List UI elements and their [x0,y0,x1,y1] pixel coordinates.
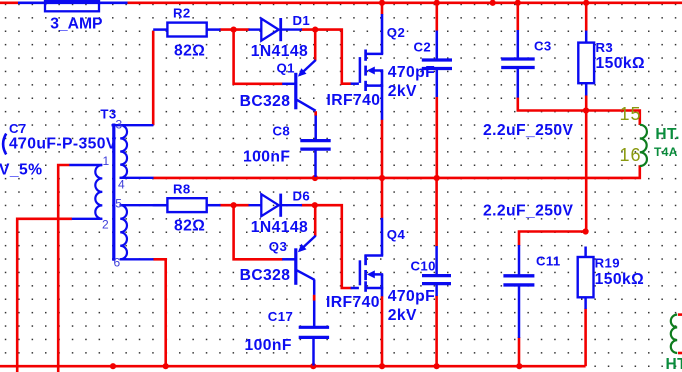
svg-text:IRF740: IRF740 [326,294,380,311]
wire top bus left [0,1,18,4]
wire C2 top [435,3,438,31]
label 82ohm upper [174,42,205,59]
wire R3 bottom / node to R19 node [585,95,588,232]
resistor R2 left stub [153,28,167,31]
resistor R8 left lead [153,204,167,207]
svg-text:R19: R19 [595,255,620,270]
svg-text:C7: C7 [9,121,27,136]
wire Q1 emitter drop [314,30,317,61]
label Q2 [387,25,405,40]
transistor Q2 drain lead [381,14,384,54]
svg-text:IRF740: IRF740 [327,92,381,109]
wire R8 right to D6 [220,204,250,207]
svg-text:2.2uF_250V: 2.2uF_250V [483,122,573,139]
wire T3 pin6 to bottom bus [153,259,165,366]
svg-text:470uF-P-350V: 470uF-P-350V [9,135,117,152]
svg-text:HT: HT [666,356,682,372]
label C17 [268,309,293,324]
wire Q1 base [234,30,283,84]
transistor Q3 collector [297,270,315,280]
svg-text:470pF: 470pF [388,288,435,305]
label Q1 [277,60,295,75]
svg-text:100nF: 100nF [245,337,292,354]
junction D1 anode node [231,27,237,33]
junction bottom bus C17 [310,363,316,369]
label 2kV upper [388,83,417,100]
junction bottom bus C10 [434,363,440,369]
wire C11 bottom [518,337,521,366]
resistor R19 bottom stub [584,297,587,309]
diode D1 cathode lead [281,28,302,30]
transformer HT winding bottom right [671,315,677,353]
junction top bus C2 [434,0,440,6]
svg-text:C3: C3 [534,39,552,54]
label C7 [9,121,27,136]
svg-text:3_AMP: 3_AMP [50,15,102,32]
svg-text:3: 3 [116,118,123,132]
label 1N4148 lower [251,219,308,236]
capacitor C11 bottom lead [518,285,521,338]
label Q3 [269,239,287,254]
label D6 [293,188,311,203]
capacitor C17 bottom lead [312,337,315,365]
label 470uF-P-350V [9,135,117,152]
label R8 [173,181,191,196]
wire Q1 collector joint red [314,112,317,115]
diode D6 [261,194,280,217]
transformer T3 pin3 lead [112,124,154,126]
pin 4 [118,178,125,192]
label IRF740 lower [326,294,380,311]
capacitor C3 top lead [517,30,520,59]
junction D1 cathode node [312,27,318,33]
capacitor C2 bottom lead [436,69,439,98]
svg-text:Q2: Q2 [387,25,405,40]
capacitor C2 top lead [436,31,439,61]
svg-text:V_5%: V_5% [0,162,42,179]
wire mid bus [153,165,640,178]
pin 3 [116,118,123,132]
capacitor C11 top lead [518,245,521,276]
wire Q2 source to mid bus [381,120,384,179]
capacitor C3 plates [501,59,535,68]
junction mid bus Q2-Q4 [379,175,385,181]
pin 1 [103,154,110,168]
resistor R3 bottom stub [585,83,588,95]
transformer T3 pin5 lead [120,204,168,206]
wire node to T4A pin15 [586,111,640,126]
capacitor C10 bottom lead [435,284,438,296]
svg-text:C2: C2 [414,40,432,55]
transistor Q2 MOSFET [351,50,384,120]
svg-text:2: 2 [102,218,109,232]
svg-text:T3: T3 [100,106,116,121]
wire Q4 source to bottom bus [381,296,384,366]
transformer T3 core [112,124,115,261]
transistor Q3 emitter [298,236,316,253]
capacitor C2 plates [422,60,452,69]
wire C2 bottom [435,97,438,179]
svg-text:15: 15 [620,104,642,124]
wire C3 bottom to node [518,97,586,110]
svg-text:150kΩ: 150kΩ [596,55,645,72]
wire R19 bottom [584,309,587,367]
transformer T3 pin6 lead [120,258,154,260]
label 2.2uF_250V lower [483,202,573,219]
capacitor C8 bottom lead [314,149,317,177]
svg-text:C8: C8 [273,124,291,139]
transistor Q1 collector [297,100,316,111]
svg-text:Q3: Q3 [269,239,287,254]
junction bottom bus C11 [516,363,522,369]
svg-text:4: 4 [118,178,125,192]
wire top bus right [128,1,682,4]
junction top bus C3 [515,0,521,6]
svg-text:D6: D6 [293,188,311,203]
resistor R8 body [167,198,206,212]
wire C10 top [435,178,438,247]
svg-text:2kV: 2kV [388,83,417,100]
resistor R8 right stub [207,204,221,207]
wire T3 pin1 branch [58,165,69,372]
svg-text:R2: R2 [173,5,191,20]
label C11 [536,254,561,269]
label 2kV lower [388,307,417,324]
fuse F? 3_AMP body [45,1,99,11]
svg-text:Q4: Q4 [387,227,406,242]
label C2 [414,40,432,55]
wire C3 top [516,3,519,31]
svg-text:150kΩ: 150kΩ [595,271,644,288]
junction C3-R3 node [583,107,589,113]
wire D1 cathode to gate corner [301,30,352,84]
transistor Q1 base lead [282,83,294,86]
diode D6 anode lead [249,204,262,206]
wire D6 cathode to gate corner [301,205,352,288]
junction D6 cathode node [312,202,318,208]
svg-text:16: 16 [620,145,642,165]
svg-text:R3: R3 [596,40,614,55]
pin 15 [620,104,642,124]
transformer T3 pin4 lead [120,177,154,179]
wire R3 top [585,3,588,31]
capacitor C8 plates [300,141,330,150]
junction bottom bus Q4 [379,363,385,369]
wire Q2 drain stub [381,3,384,15]
junction D6 anode node [231,202,237,208]
svg-text:100nF: 100nF [243,148,290,165]
capacitor C17 plates [299,327,329,337]
wire Q3 emitter drop [314,205,317,236]
label D1 [293,13,311,28]
transformer T3 pin2 lead [72,218,103,220]
svg-text:1: 1 [103,154,110,168]
svg-text:470pF: 470pF [388,64,435,81]
wire R19 node to C11 [519,232,586,247]
svg-text:6: 6 [114,256,121,270]
svg-text:82Ω: 82Ω [174,42,205,59]
label 100nF upper [243,148,290,165]
diode D1 anode lead [249,28,262,30]
svg-text:5: 5 [115,197,122,211]
capacitor C8 top lead [314,116,317,140]
junction mid bus C8 [312,175,318,181]
junction top bus R3 [583,0,589,6]
transformer T3 secondary winding A [120,125,127,178]
label C3 [534,39,552,54]
label 150kohm lower [595,271,644,288]
pin 6 [114,256,121,270]
wire bottom bus [0,365,586,368]
pin 16 [620,145,642,165]
wire Q3 collector joint red [313,295,316,301]
svg-text:2kV: 2kV [388,307,417,324]
label 1N4148 upper [251,43,308,60]
transformer T3 secondary winding B [120,205,127,259]
capacitor C11 plates [503,276,534,285]
transistor Q4 drain lead [381,218,384,256]
wire Q4 drain stub [381,178,384,218]
junction bottom bus a [110,363,116,369]
fuse lead [18,1,128,4]
junction top bus a [490,0,496,6]
junction top bus Q2 [379,0,385,6]
transistor Q1 emitter [298,60,316,77]
wire T3 pin2 branch [17,219,72,372]
label IRF740 upper [327,92,381,109]
svg-text:Q1: Q1 [277,60,295,75]
resistor R3 top stub [585,31,588,43]
wire HT coil stub bottom [678,352,682,355]
label 82ohm lower [174,218,205,235]
capacitor C10 plates [422,276,451,284]
junction R19-C11 node [583,228,589,234]
transistor Q4 MOSFET [351,255,384,297]
pin 5 [115,197,122,211]
capacitor C3 bottom lead [517,68,520,98]
wire R2 left branch to T3 pin3 [152,31,155,125]
label BC328 upper [240,93,291,110]
svg-text:C17: C17 [268,309,293,324]
resistor R19 body [578,257,594,297]
label BC328 lower [240,267,291,284]
label 150kohm upper [596,55,645,72]
diode D1 [261,18,280,41]
wire C10 bottom [435,296,438,367]
resistor R2 body [167,23,206,37]
label 470pF upper [388,64,435,81]
svg-text:1N4148: 1N4148 [251,219,308,236]
transistor Q1 base bar [294,73,297,110]
capacitor C17 top lead [313,280,316,328]
transformer T3 pin1 lead [69,164,102,166]
svg-text:1N4148: 1N4148 [251,43,308,60]
junction bottom bus pin6 [163,363,169,369]
label 2.2uF_250V upper [483,122,573,139]
svg-text:HT.: HT. [655,126,679,143]
wire Q3 base [234,205,283,259]
label T4A [654,145,678,159]
transistor Q3 base bar [294,248,297,284]
transistor Q3 base lead [282,258,294,261]
svg-text:D1: D1 [293,13,311,28]
resistor R19 top stub [584,247,587,258]
pin 2 [102,218,109,232]
junction mid bus C2-C10 [434,175,440,181]
capacitor C10 top lead [435,246,438,276]
transformer T3 primary winding [95,165,102,219]
svg-text:2.2uF_250V: 2.2uF_250V [483,202,573,219]
label HT. [655,126,679,143]
label R19 [595,255,620,270]
diode D6 cathode lead [281,204,302,206]
label 100nF lower [245,337,292,354]
svg-text:C11: C11 [536,254,561,269]
svg-text:C10: C10 [411,259,436,274]
resistor R2 right stub [207,28,221,31]
label 470pF lower [388,288,435,305]
capacitor C7 curved plate [3,134,6,155]
wire Q3 collector joint [313,295,316,301]
label HT bottom [666,356,682,372]
label Q4 [387,227,406,242]
svg-text:82Ω: 82Ω [174,218,205,235]
label C8 [273,124,291,139]
label 3_AMP [50,15,102,32]
svg-text:BC328: BC328 [240,267,291,284]
label R3 [596,40,614,55]
wire Q1 collector joint [314,111,317,116]
svg-text:BC328: BC328 [240,93,291,110]
svg-text:R8: R8 [173,181,191,196]
transformer T4A winding [640,125,647,166]
label T3 [100,106,116,121]
label R2 [173,5,191,20]
resistor R3 body [578,43,594,84]
label C10 [411,259,436,274]
wire HT coil stub top [678,313,682,316]
wire R2 right to D1 [220,28,250,31]
label V_5% [0,162,42,179]
svg-text:T4A: T4A [654,145,678,159]
